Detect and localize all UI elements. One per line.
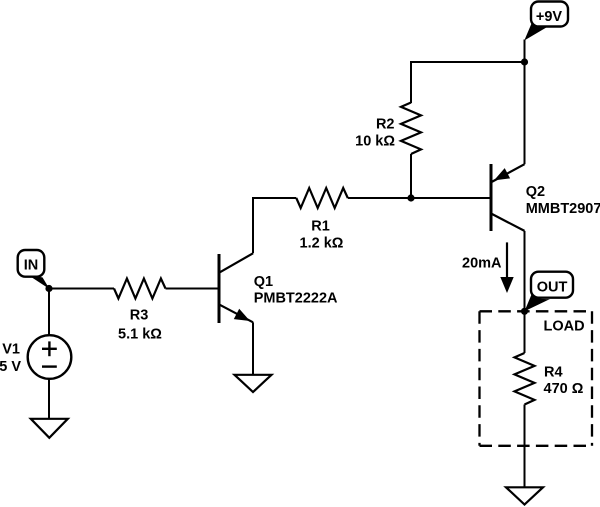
svg-text:5.1 kΩ: 5.1 kΩ [118, 327, 162, 343]
svg-text:470 Ω: 470 Ω [544, 381, 584, 397]
Q2 emitter diagonal [492, 164, 525, 182]
wire V1 bottom to ground [48, 379, 50, 419]
svg-text:IN: IN [24, 258, 39, 274]
node at +9V rail [521, 58, 528, 65]
svg-text:R3: R3 [130, 308, 149, 324]
V1 plus sign [42, 348, 57, 350]
resistor R2 [401, 103, 421, 155]
svg-text:Q2: Q2 [526, 184, 545, 200]
transistor Q1 PMBT2222A (NPN) [219, 253, 253, 323]
resistor R4 [515, 353, 535, 405]
node OUT [521, 308, 528, 315]
Q2 collector diagonal [492, 214, 525, 231]
transistor Q2 MMBT2907 (PNP) [491, 164, 525, 231]
wire Q2 collector down to OUT node [524, 231, 526, 311]
dashed LOAD box [480, 311, 593, 446]
svg-text:LOAD: LOAD [544, 318, 585, 334]
wire Q1 collector riser to R1 [253, 198, 296, 253]
wire R4 bottom to ground [524, 405, 526, 488]
svg-text:V1: V1 [2, 342, 20, 358]
resistor R1 [296, 188, 348, 208]
current annotation 20mA arrow [500, 242, 513, 293]
wire +9V flag lead down to node and to Q2 emitter corner [524, 40, 526, 165]
Q2 base bar [490, 164, 493, 231]
node R1/R2 junction [407, 194, 414, 201]
wire IN node to R3 [49, 288, 114, 290]
svg-text:R4: R4 [544, 365, 563, 381]
Q1 base bar [218, 254, 221, 323]
svg-text:MMBT2907: MMBT2907 [526, 201, 600, 217]
svg-text:Q1: Q1 [254, 274, 273, 290]
wire base rail R1 right end to Q2 base [348, 197, 490, 199]
svg-text:+9V: +9V [536, 9, 563, 25]
flag IN [18, 250, 50, 289]
ground under R4 [506, 487, 543, 504]
Q2 emitter arrow [494, 168, 510, 180]
wire R3 to Q1 base [166, 288, 218, 290]
svg-text:1.2 kΩ: 1.2 kΩ [300, 235, 344, 251]
svg-text:OUT: OUT [537, 280, 568, 296]
ground under Q1 emitter [235, 375, 272, 392]
V1 minus sign [42, 365, 57, 367]
node IN [45, 285, 52, 292]
wire OUT node to R4 [524, 311, 526, 353]
svg-text:PMBT2222A: PMBT2222A [254, 291, 338, 307]
svg-text:R1: R1 [311, 218, 330, 234]
flag OUT [525, 272, 574, 312]
svg-text:20mA: 20mA [462, 255, 502, 271]
Q1 collector diagonal [220, 253, 253, 272]
voltage source V1 [28, 289, 72, 419]
Q1 emitter diagonal [220, 305, 253, 323]
svg-text:5 V: 5 V [0, 359, 21, 375]
wire Q1 emitter down to ground [252, 322, 254, 375]
svg-text:R2: R2 [376, 116, 395, 132]
wire R2 bottom lead [410, 154, 412, 198]
power flag +9V [524, 2, 568, 41]
resistor R3 [114, 279, 166, 299]
svg-text:10 kΩ: 10 kΩ [355, 133, 395, 149]
wire IN node to V1 [48, 289, 50, 336]
wire top rail from R2 top corner to +9V node [411, 62, 525, 103]
V1 circle [28, 335, 72, 379]
ground under V1 [31, 419, 68, 438]
Q1 emitter arrow [234, 309, 250, 321]
